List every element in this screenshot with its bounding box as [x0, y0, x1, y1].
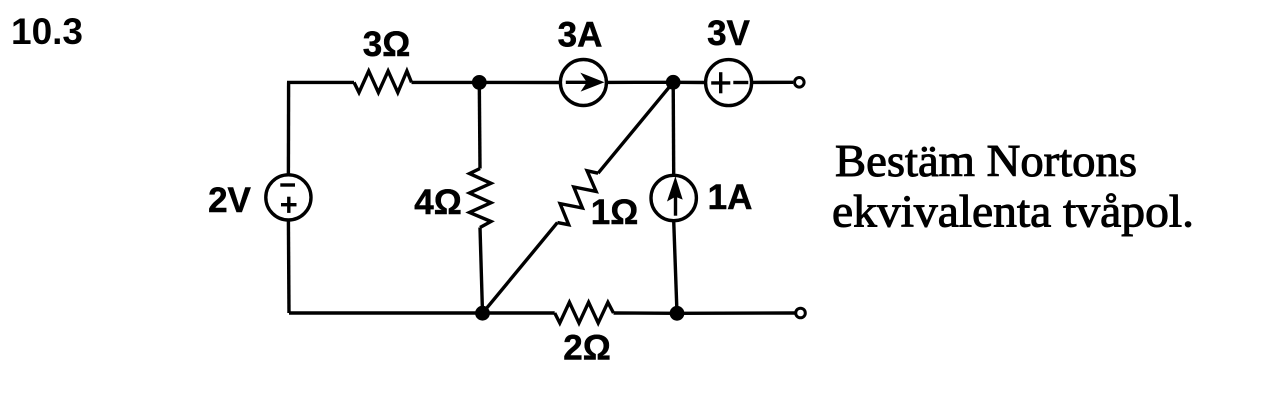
node A (top-middle junction dot)	[472, 75, 487, 90]
svg-text:10.3: 10.3	[11, 11, 83, 52]
label 3V	[707, 14, 750, 53]
task text line 1	[835, 136, 1137, 186]
wire: right vertical from 1A source to node D	[674, 221, 677, 314]
wire: top between 3ohm and node A	[412, 81, 480, 84]
svg-text:ekvivalenta tvåpol.: ekvivalenta tvåpol.	[832, 186, 1194, 236]
wire: right vertical from node B to 1A source	[672, 82, 676, 175]
voltage source 3V (circle with + -)	[706, 60, 752, 106]
wire: left vertical lower segment	[287, 220, 291, 313]
terminal (top output, open circle)	[795, 78, 805, 88]
resistor R 4ohm vertical zigzag	[470, 169, 492, 228]
wire: top between node A and 3A source	[479, 81, 560, 84]
wire: bottom to output terminal	[677, 311, 795, 315]
resistor R 2ohm zigzag	[555, 302, 614, 323]
node D (bottom-right junction dot)	[670, 306, 685, 321]
label 4ohm	[414, 183, 462, 222]
svg-text:3V: 3V	[707, 14, 750, 53]
label 1A	[708, 178, 753, 217]
wire: diagonal upper segment to node B	[598, 82, 673, 173]
label 3A	[558, 15, 603, 54]
svg-text:Bestäm Nortons: Bestäm Nortons	[835, 136, 1137, 186]
wire: bottom between node C and 2ohm	[483, 311, 555, 314]
label 1ohm	[591, 193, 639, 232]
current source 1A (circle with up arrow)	[651, 175, 696, 220]
wire: top-left horizontal	[287, 81, 354, 84]
label 3ohm	[363, 25, 411, 64]
terminal (bottom output, open circle)	[796, 308, 806, 318]
svg-text:1Ω: 1Ω	[591, 193, 639, 232]
task text line 2	[832, 186, 1194, 236]
voltage source V1 2V (circle with - over +)	[266, 175, 311, 220]
resistor R 1ohm diagonal zigzag	[557, 171, 598, 225]
label 2ohm	[563, 329, 611, 368]
wire: middle vertical from node A to 4ohm	[478, 82, 482, 168]
wire: diagonal lower segment from node C	[483, 223, 558, 314]
problem number 10.3	[11, 11, 83, 52]
svg-text:4Ω: 4Ω	[414, 183, 462, 222]
node B (top-right junction dot)	[666, 75, 681, 90]
wire: top to output terminal	[752, 81, 793, 84]
svg-text:2Ω: 2Ω	[563, 329, 611, 368]
svg-text:1A: 1A	[708, 178, 753, 217]
wire: top between 3A source and node B	[606, 81, 673, 84]
wire: left vertical upper segment	[287, 82, 291, 174]
label 2V	[208, 181, 251, 220]
resistor R 3ohm zigzag	[354, 71, 412, 93]
wire: middle vertical from 4ohm to node C	[480, 228, 483, 314]
wire: bottom-left horizontal	[289, 311, 483, 314]
svg-text:2V: 2V	[208, 181, 251, 220]
wire: bottom between 2ohm and node D	[614, 311, 678, 315]
current source 3A (circle with right arrow)	[560, 60, 606, 106]
wire: top between node B and 3V source	[673, 81, 705, 85]
node C (bottom-left junction dot)	[475, 306, 490, 321]
svg-text:3A: 3A	[558, 15, 603, 54]
svg-text:3Ω: 3Ω	[363, 25, 411, 64]
